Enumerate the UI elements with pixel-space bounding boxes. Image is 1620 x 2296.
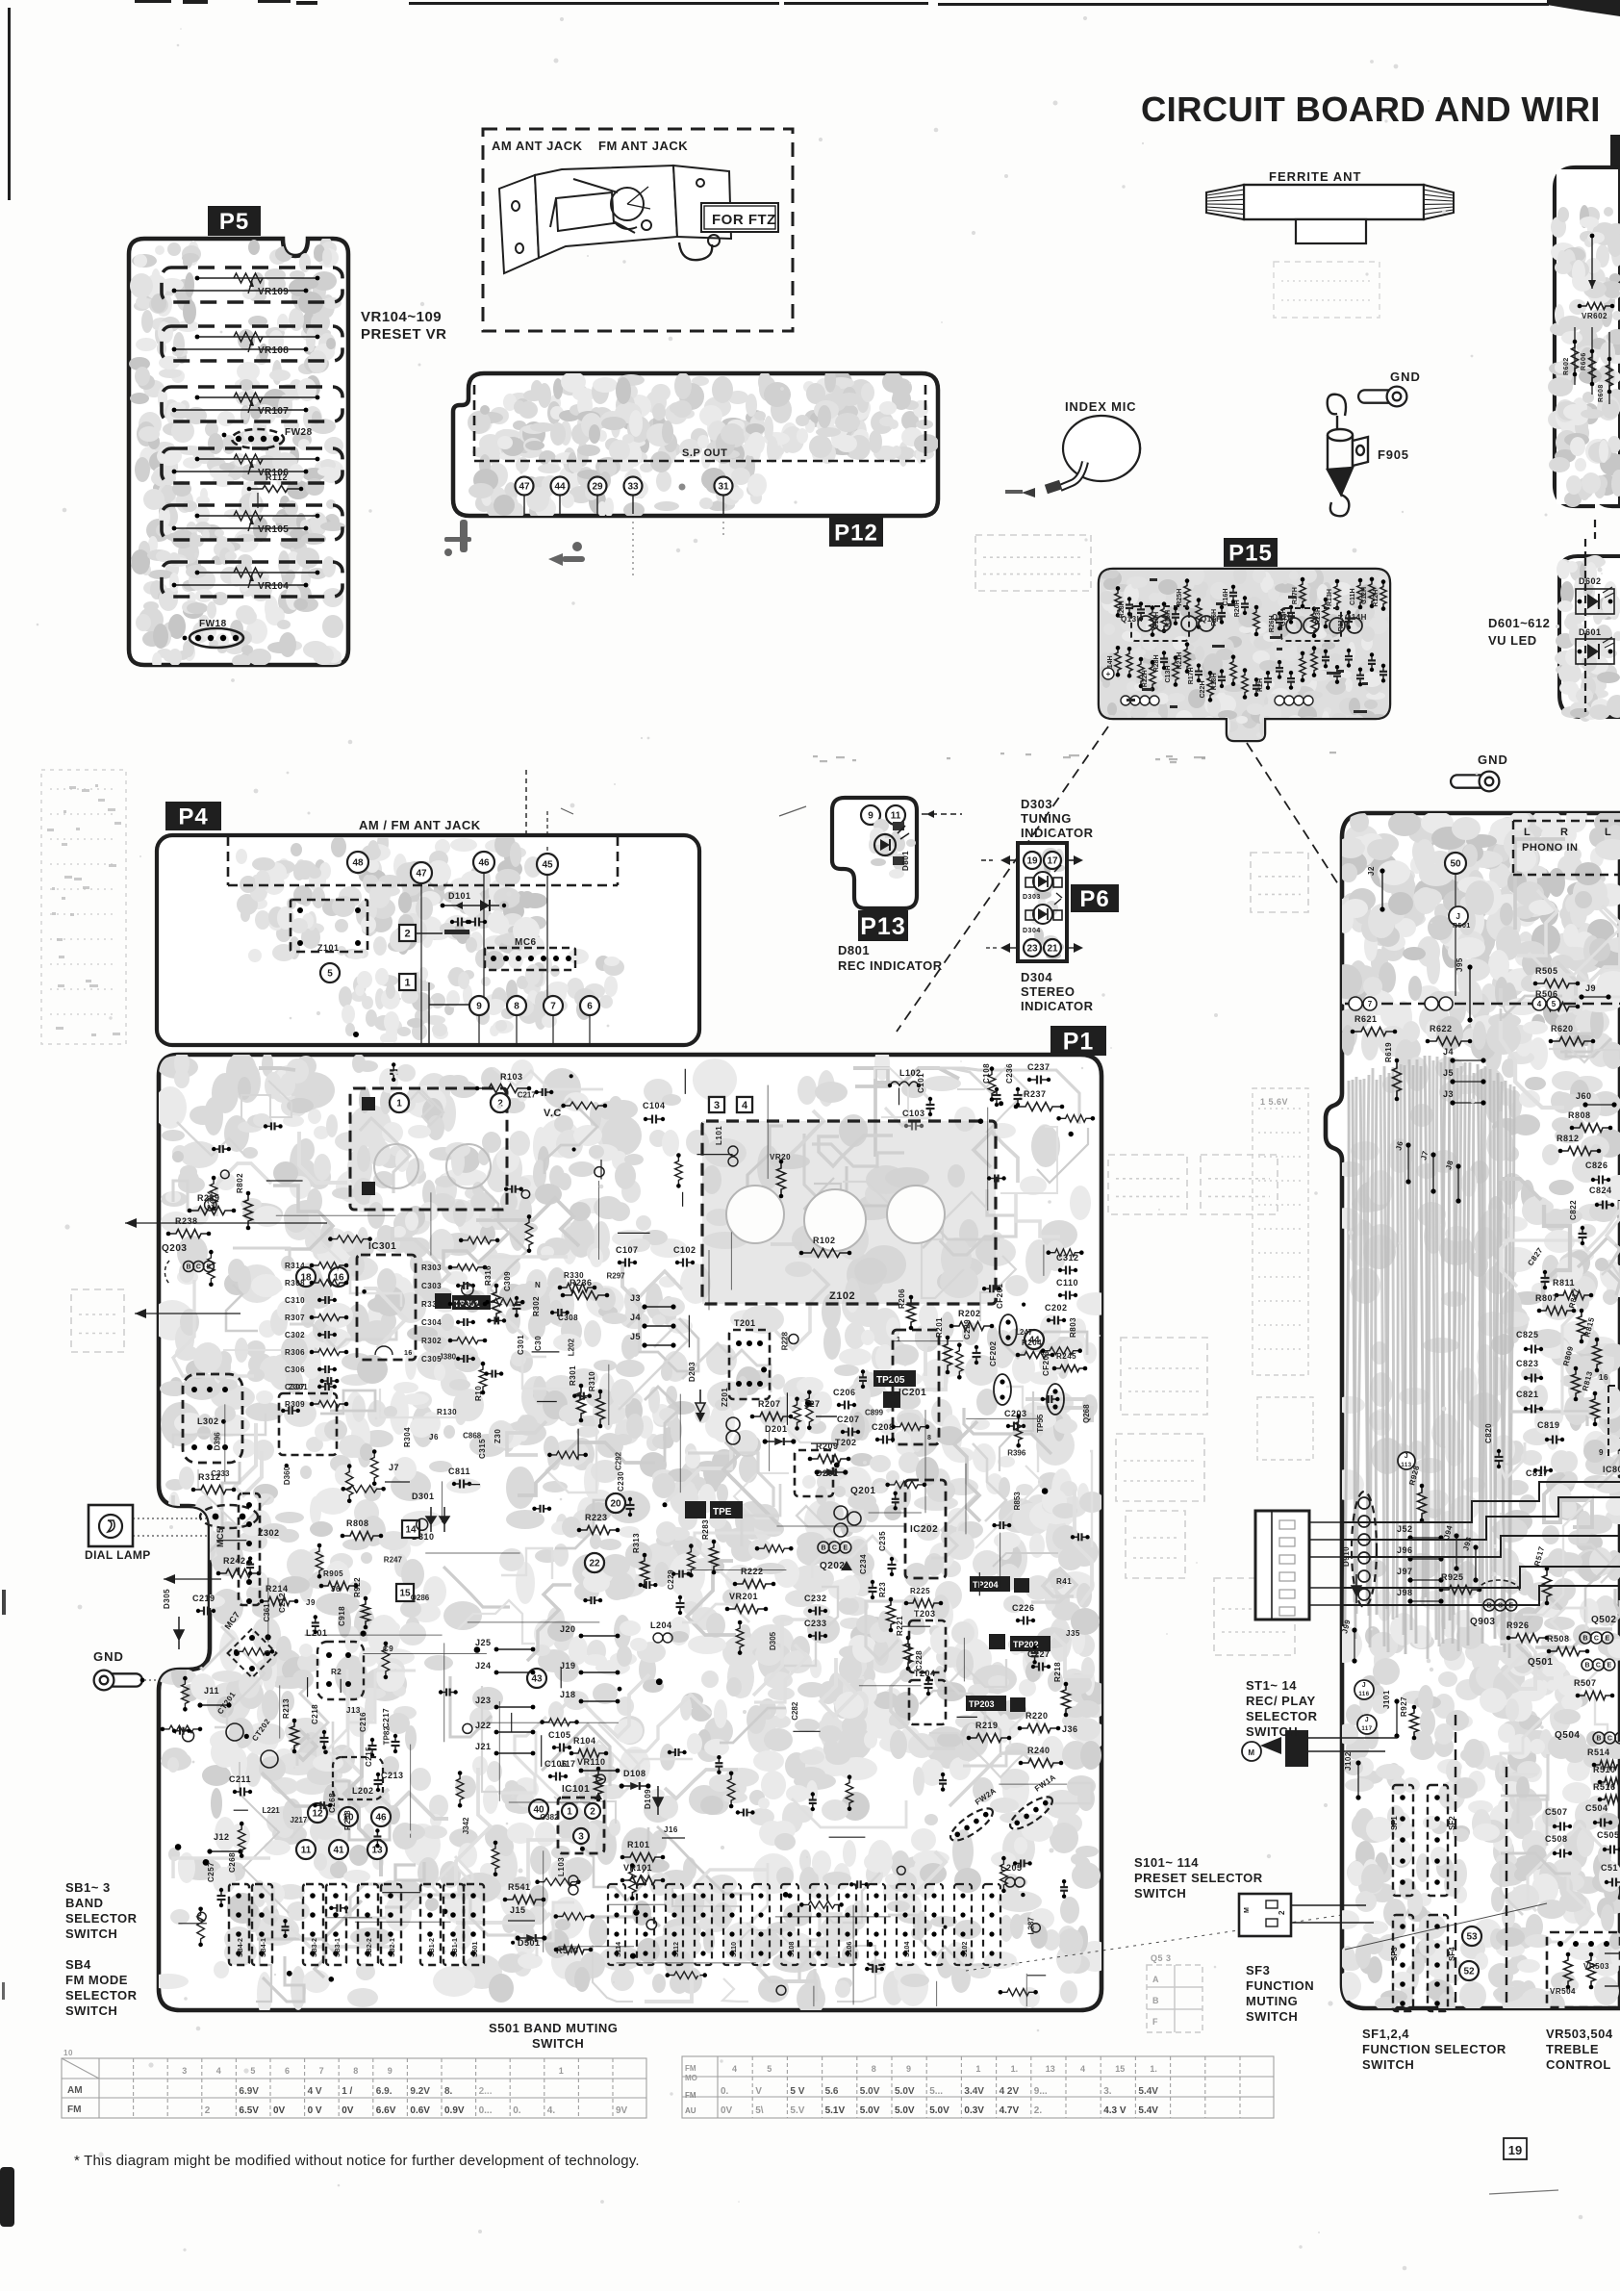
board P4 outline xyxy=(157,835,699,1045)
resistor R508 Q501 xyxy=(1528,1634,1615,1700)
svg-text:R23: R23 xyxy=(878,1582,887,1597)
transistor Q203 xyxy=(162,1243,214,1284)
coil L201 xyxy=(306,1628,364,1699)
svg-text:J9: J9 xyxy=(306,1598,316,1607)
svg-text:C102: C102 xyxy=(673,1245,696,1255)
coil L102 xyxy=(888,1068,922,1087)
svg-text:S112: S112 xyxy=(673,1942,680,1957)
svg-text:R330: R330 xyxy=(421,1300,442,1309)
svg-text:R302: R302 xyxy=(421,1337,442,1345)
svg-text:R304: R304 xyxy=(403,1427,412,1447)
svg-text:C811: C811 xyxy=(448,1467,470,1476)
ground lug (middle) xyxy=(1451,753,1508,791)
IC201 dashed xyxy=(893,1330,939,1444)
caps row above band switches C214 C208 xyxy=(331,1645,393,1676)
svg-text:R103: R103 xyxy=(500,1072,523,1082)
svg-text:S110: S110 xyxy=(731,1942,738,1957)
pcb component scatter P1 xyxy=(161,1062,1096,1996)
note D801 REC INDICATOR xyxy=(838,943,943,973)
svg-text:C22H: C22H xyxy=(1200,680,1206,698)
svg-text:R245: R245 xyxy=(1056,1352,1076,1361)
svg-text:R803: R803 xyxy=(1069,1317,1077,1338)
svg-text:R306: R306 xyxy=(285,1348,305,1357)
svg-text:IC202: IC202 xyxy=(910,1524,938,1535)
svg-text:14: 14 xyxy=(405,1525,417,1536)
svg-text:L205: L205 xyxy=(1000,1863,1023,1873)
svg-text:R606: R606 xyxy=(1581,352,1587,370)
svg-text:TP82: TP82 xyxy=(383,1726,392,1746)
svg-text:J380: J380 xyxy=(439,1353,456,1362)
svg-text:R238: R238 xyxy=(175,1216,198,1226)
svg-text:SB4: SB4 xyxy=(65,1957,91,1972)
note D303 TUNING INDICATOR xyxy=(1021,797,1094,840)
svg-text:Q268: Q268 xyxy=(1082,1404,1091,1423)
svg-text:Z101: Z101 xyxy=(317,943,340,953)
preset selector switches S101~S114 xyxy=(608,1884,1000,1965)
resistor R112 xyxy=(247,472,304,508)
svg-text:R247: R247 xyxy=(384,1555,403,1564)
svg-text:C333: C333 xyxy=(211,1469,230,1478)
jumper FW28 xyxy=(222,427,313,448)
svg-text:P6: P6 xyxy=(1079,886,1109,912)
svg-text:Q11H: Q11H xyxy=(1201,615,1222,624)
label box FOR FTZ xyxy=(701,203,778,232)
svg-text:VR101: VR101 xyxy=(623,1863,652,1873)
svg-text:SB3-2: SB3-2 xyxy=(312,1938,318,1957)
svg-text:C228: C228 xyxy=(915,1650,924,1671)
svg-text:R214: R214 xyxy=(266,1584,289,1594)
svg-text:Q286: Q286 xyxy=(411,1594,430,1602)
svg-text:TP204: TP204 xyxy=(973,1580,999,1590)
svg-text:R905: R905 xyxy=(323,1569,343,1578)
jumpers J52 J96 J97 J98 xyxy=(1397,1524,1444,1604)
test point TP301 xyxy=(435,1293,491,1310)
resistor R223 R313 R283 R222 VR201 xyxy=(577,1513,776,1643)
IC202 dashed xyxy=(905,1480,946,1578)
pin 46 xyxy=(473,852,494,873)
svg-text:R808: R808 xyxy=(346,1518,369,1528)
pin 21 xyxy=(1044,939,1061,957)
svg-text:FM MODE: FM MODE xyxy=(65,1973,128,1987)
pin 7 (P4) xyxy=(544,996,563,1015)
parts near S501: R541 J15 D501 R540 L103 C257 C268 xyxy=(207,1852,593,1955)
svg-text:P13: P13 xyxy=(860,913,905,940)
pins 20 22 xyxy=(606,1493,625,1513)
svg-text:J35: J35 xyxy=(1066,1629,1080,1638)
svg-text:1: 1 xyxy=(567,1807,572,1818)
note ST1~14 REC/PLAY SELECTOR SWITCH xyxy=(1246,1678,1318,1739)
svg-text:J21: J21 xyxy=(475,1742,492,1751)
svg-text:D601: D601 xyxy=(1579,627,1602,637)
svg-text:C108: C108 xyxy=(982,1063,991,1084)
svg-text:R102: R102 xyxy=(813,1236,836,1245)
svg-text:J4: J4 xyxy=(630,1313,641,1322)
svg-text:VU LED: VU LED xyxy=(1488,633,1537,648)
svg-text:R802: R802 xyxy=(236,1173,244,1193)
svg-text:R313: R313 xyxy=(632,1533,641,1553)
svg-text:IC101: IC101 xyxy=(562,1784,590,1795)
svg-text:T204: T204 xyxy=(914,1669,936,1678)
svg-text:D201: D201 xyxy=(765,1424,788,1434)
svg-text:B: B xyxy=(186,1264,190,1271)
svg-text:N: N xyxy=(535,1281,541,1289)
board fragment (top right) xyxy=(1555,167,1620,506)
jumpers J3 J4 J5 xyxy=(630,1293,676,1348)
svg-text:S101~ 114: S101~ 114 xyxy=(1134,1855,1199,1870)
pins 53 52 xyxy=(1462,1926,1481,1946)
svg-text:9: 9 xyxy=(476,1002,482,1012)
pin 1 (P1, redraw) xyxy=(390,1093,409,1112)
svg-text:C202: C202 xyxy=(1045,1303,1068,1313)
ghost box Q5 xyxy=(1147,1965,1202,2032)
transistor Q502 xyxy=(1580,1615,1616,1644)
trimmer VR201 top xyxy=(770,1153,791,1198)
svg-text:R2: R2 xyxy=(331,1668,342,1676)
svg-text:L287: L287 xyxy=(1026,1917,1035,1935)
svg-text:J19: J19 xyxy=(560,1661,576,1671)
connector MC6 xyxy=(485,937,575,970)
pin 44 (P12) xyxy=(551,477,570,515)
dashed pointer line from P15 to P1 xyxy=(897,727,1108,1032)
pin 2 (P1, redraw) xyxy=(491,1093,510,1112)
svg-text:AM ANT JACK: AM ANT JACK xyxy=(492,139,583,153)
svg-text:SB4-1: SB4-1 xyxy=(261,1938,267,1957)
svg-text:16: 16 xyxy=(404,1350,413,1357)
svg-text:R201: R201 xyxy=(935,1317,944,1338)
svg-text:Q12H: Q12H xyxy=(1272,613,1294,622)
svg-text:J5: J5 xyxy=(630,1332,641,1341)
svg-text:R330: R330 xyxy=(564,1271,584,1280)
page number 19 xyxy=(1504,2138,1527,2159)
note D304 STEREO INDICATOR xyxy=(1021,970,1094,1013)
svg-text:R28H: R28H xyxy=(1153,654,1160,672)
capacitor C108 C236 xyxy=(982,1063,1023,1107)
svg-text:IC201: IC201 xyxy=(899,1388,926,1398)
svg-text:SB1-2: SB1-2 xyxy=(429,1938,436,1957)
svg-text:D304: D304 xyxy=(1021,970,1052,984)
thin pointer line across P2 xyxy=(1345,1903,1547,1950)
svg-text:J23: J23 xyxy=(475,1696,492,1705)
coil L205 xyxy=(1000,1863,1025,1887)
parts under IC101: R101 VR101 D109 D108 R104 C105 C106 VR110 xyxy=(544,1730,685,1885)
svg-text:J3: J3 xyxy=(630,1293,641,1303)
pin 2 (P1) xyxy=(491,1093,510,1112)
svg-text:R225: R225 xyxy=(910,1587,930,1595)
svg-text:Q14H: Q14H xyxy=(1345,613,1367,622)
svg-text:D303: D303 xyxy=(1021,797,1052,811)
svg-text:FERRITE ANT: FERRITE ANT xyxy=(1269,169,1361,184)
svg-text:D801: D801 xyxy=(838,943,870,957)
rec/play switch connector ST1~14 xyxy=(1255,1511,1342,1620)
svg-text:D602: D602 xyxy=(1579,576,1602,586)
svg-text:R308: R308 xyxy=(285,1279,305,1288)
svg-text:R112: R112 xyxy=(266,472,288,482)
board P6 outline xyxy=(1018,843,1067,961)
svg-text:R297: R297 xyxy=(607,1272,626,1281)
board label P1 xyxy=(1050,1026,1106,1056)
svg-text:Z301: Z301 xyxy=(289,1383,308,1391)
terminal 3 xyxy=(709,1097,724,1112)
svg-text:R307: R307 xyxy=(285,1314,305,1322)
scan artifact: left edge line xyxy=(0,8,14,2227)
treble control VR503 VR504 dashed box xyxy=(1547,1932,1620,2007)
pin 11 (P13) xyxy=(886,805,905,825)
svg-text:L202: L202 xyxy=(567,1339,575,1357)
circled J113 xyxy=(1398,1452,1415,1469)
svg-text:Z201: Z201 xyxy=(721,1388,729,1407)
svg-text:8: 8 xyxy=(927,1435,931,1441)
svg-text:C216: C216 xyxy=(359,1712,367,1732)
pcb traces P5 xyxy=(129,237,345,670)
svg-text:15: 15 xyxy=(399,1589,411,1599)
svg-text:R853: R853 xyxy=(1013,1492,1022,1511)
wires in P4 xyxy=(356,808,573,1045)
wires/resistors VR602 R602 R606 R608 xyxy=(1563,234,1614,404)
resistor R619 xyxy=(1384,1042,1402,1101)
svg-text:41: 41 xyxy=(333,1846,344,1856)
pin 5 xyxy=(320,963,340,982)
svg-text:MC6: MC6 xyxy=(515,937,537,948)
svg-text:SB3-1: SB3-1 xyxy=(335,1938,342,1957)
svg-text:BAND: BAND xyxy=(65,1896,104,1910)
terminal 4 xyxy=(737,1097,752,1112)
pin 48 xyxy=(347,852,368,873)
pin 45 xyxy=(537,854,558,875)
svg-text:R237: R237 xyxy=(1024,1089,1047,1099)
index mic xyxy=(1005,399,1140,497)
svg-text:SB1~ 3: SB1~ 3 xyxy=(65,1880,111,1895)
svg-text:C104: C104 xyxy=(643,1101,666,1110)
svg-text:SWITCH: SWITCH xyxy=(65,2003,117,2018)
svg-text:D301: D301 xyxy=(412,1492,435,1501)
svg-text:FW28: FW28 xyxy=(285,427,313,438)
function switch SF3 (board) xyxy=(1390,1915,1413,2011)
svg-text:29: 29 xyxy=(592,482,603,493)
resistor R236 xyxy=(561,1278,610,1300)
band selector switches SB4/SB3/SB2/SB1 S501 xyxy=(229,1884,484,1965)
board label P5 xyxy=(208,206,261,236)
note S501 BAND MUTING SWITCH xyxy=(489,2021,618,2051)
svg-text:J22: J22 xyxy=(475,1721,492,1730)
preset pot VR106 xyxy=(162,448,342,483)
svg-text:1: 1 xyxy=(404,978,410,989)
LED D801 xyxy=(869,819,916,879)
function muting switch SF3 connector xyxy=(1239,1894,1374,1936)
svg-text:SB4-2: SB4-2 xyxy=(238,1938,244,1957)
svg-text:C233: C233 xyxy=(804,1619,827,1628)
pin 31 (P12) xyxy=(715,477,733,515)
svg-text:CIRCUIT BOARD AND WIRI: CIRCUIT BOARD AND WIRI xyxy=(1141,89,1601,129)
dashed cutout below fragment xyxy=(1594,520,1596,539)
dashed section dividers (P2 bottom) xyxy=(1455,1715,1456,2008)
resistors R621 R622 R620 xyxy=(1351,1014,1596,1046)
svg-text:R20H: R20H xyxy=(1234,600,1241,617)
ghost marks below ferrite xyxy=(1274,262,1380,318)
svg-text:R309: R309 xyxy=(285,1400,305,1409)
svg-text:L204: L204 xyxy=(650,1620,672,1630)
jumper J2 xyxy=(1367,866,1385,912)
svg-text:TP55: TP55 xyxy=(1036,1414,1045,1433)
svg-text:S104: S104 xyxy=(904,1942,911,1957)
ferrite antenna xyxy=(1206,169,1454,243)
jumper J95 xyxy=(1455,957,1473,1022)
board label P6 xyxy=(1071,884,1119,912)
svg-text:R206: R206 xyxy=(898,1288,906,1309)
board label P13 xyxy=(858,910,908,941)
resistors R202 R201 R206 cluster xyxy=(898,1288,994,1374)
svg-text:T201: T201 xyxy=(734,1318,756,1328)
svg-text:J18: J18 xyxy=(560,1690,576,1699)
IC101 dashed xyxy=(558,1784,604,1853)
resistor R925 R517 xyxy=(1439,1545,1552,1606)
svg-text:C310: C310 xyxy=(285,1296,305,1305)
fuse clip F905 xyxy=(1328,395,1368,517)
cluster around C213 C268 R258 xyxy=(328,1771,404,1830)
svg-text:C103: C103 xyxy=(902,1109,925,1118)
svg-text:48: 48 xyxy=(352,858,364,869)
svg-text:SB1-1: SB1-1 xyxy=(452,1938,459,1957)
svg-text:GND: GND xyxy=(1478,753,1508,767)
svg-text:T203: T203 xyxy=(914,1609,936,1619)
svg-text:C227: C227 xyxy=(1027,1649,1050,1659)
svg-text:R228: R228 xyxy=(781,1332,790,1351)
jumper J9 xyxy=(1579,983,1610,1000)
caps CT201 CT202 R213 C211 C216 C217 C215 L202 xyxy=(215,1690,399,1799)
svg-text:IC301: IC301 xyxy=(368,1241,396,1252)
jumpers FW2A FW1A xyxy=(947,1773,1058,1846)
svg-text:C868: C868 xyxy=(463,1431,482,1440)
svg-text:Z102: Z102 xyxy=(829,1290,855,1302)
svg-text:D601~612: D601~612 xyxy=(1488,616,1550,630)
svg-text:R213: R213 xyxy=(282,1698,291,1719)
pin 50 xyxy=(1445,853,1466,874)
jumpers J94 J93 vertical xyxy=(1442,1524,1478,1583)
capacitor C237 xyxy=(1027,1062,1050,1084)
svg-text:C217: C217 xyxy=(382,1708,391,1728)
svg-text:J17: J17 xyxy=(560,1759,576,1769)
svg-text:R204: R204 xyxy=(1022,1339,1042,1347)
test point TP205 xyxy=(873,1370,916,1408)
svg-text:46: 46 xyxy=(375,1813,387,1824)
svg-text:R2H: R2H xyxy=(1257,678,1264,692)
svg-text:D108: D108 xyxy=(623,1769,646,1778)
svg-text:CF202: CF202 xyxy=(989,1340,998,1366)
svg-text:C16H: C16H xyxy=(1223,589,1229,606)
board label P12 xyxy=(829,518,883,547)
svg-text:C226: C226 xyxy=(1012,1603,1035,1613)
svg-text:STEREO: STEREO xyxy=(1021,984,1075,999)
svg-text:TP203: TP203 xyxy=(969,1699,995,1709)
svg-text:44: 44 xyxy=(554,482,566,493)
board P5 outline xyxy=(129,239,348,665)
dashed outline inside P12 (S.P OUT) xyxy=(473,385,476,461)
voltage table (right) xyxy=(682,2056,1274,2118)
svg-text:R316: R316 xyxy=(484,1265,493,1286)
svg-text:J16: J16 xyxy=(664,1825,678,1834)
pin 18 / 16 xyxy=(296,1267,316,1287)
svg-text:L103: L103 xyxy=(557,1857,566,1876)
pin 29 (P12) xyxy=(589,477,607,515)
svg-text:S501 BAND MUTING: S501 BAND MUTING xyxy=(489,2021,618,2035)
capacitor C101 C103 xyxy=(902,1073,935,1131)
svg-text:C: C xyxy=(832,1545,837,1552)
note SF3 FUNCTION MUTING SWITCH xyxy=(1246,1963,1314,2024)
preset pot VR108 xyxy=(162,326,342,361)
svg-text:17: 17 xyxy=(1047,856,1058,867)
svg-text:INDICATOR: INDICATOR xyxy=(1021,999,1094,1013)
connectors CF201 CF202 CF203 xyxy=(989,1283,1064,1415)
svg-text:C235: C235 xyxy=(878,1531,887,1551)
ground lug (top) xyxy=(1358,370,1421,406)
svg-text:C292: C292 xyxy=(615,1451,623,1470)
jumpers J101 R927 vertical xyxy=(1340,1619,1418,1800)
svg-text:12: 12 xyxy=(312,1809,323,1820)
board: VU LED strip xyxy=(1559,556,1620,717)
ghost voltage strip (left of P2) xyxy=(1253,1088,1313,1460)
resistors R505 R506 xyxy=(1533,966,1581,1011)
svg-text:C208: C208 xyxy=(872,1422,895,1432)
pcb traces P1 xyxy=(148,1046,1115,2016)
svg-text:SB2-1: SB2-1 xyxy=(390,1938,396,1957)
dashed arrow right of P13 xyxy=(922,810,962,818)
svg-text:AM / FM ANT JACK: AM / FM ANT JACK xyxy=(359,818,481,832)
svg-text:GND: GND xyxy=(1390,370,1421,384)
svg-text:VR107: VR107 xyxy=(258,406,289,417)
svg-text:PRESET SELECTOR: PRESET SELECTOR xyxy=(1134,1871,1263,1885)
transformer T203 xyxy=(909,1609,946,1672)
svg-text:C207: C207 xyxy=(837,1415,860,1424)
note SB4 FM MODE SELECTOR SWITCH xyxy=(65,1957,138,2018)
caps C230 C232 C233 C234 C235 xyxy=(617,1471,897,1641)
middle cluster: R207 J27 C206 C207 C208 D201 D202 R209 Z201 xyxy=(721,1388,895,1464)
resistor R103 xyxy=(475,1072,532,1093)
svg-text:C206: C206 xyxy=(833,1388,856,1397)
capacitors near D101 xyxy=(444,918,487,935)
svg-text:J7: J7 xyxy=(389,1463,399,1472)
resistor R926 xyxy=(1506,1620,1550,1643)
svg-text:VR104~109: VR104~109 xyxy=(361,309,442,325)
pin 9 (P4) xyxy=(469,996,489,1015)
svg-text:S501: S501 xyxy=(472,1942,479,1957)
svg-text:MC5: MC5 xyxy=(215,1527,225,1547)
svg-text:J6: J6 xyxy=(429,1433,439,1441)
svg-text:C218: C218 xyxy=(311,1704,319,1724)
dial lamp leads xyxy=(133,1518,210,1519)
dashed region (ant jack) in P4 xyxy=(227,836,230,885)
resistor R102 xyxy=(799,1236,852,1258)
svg-text:R101: R101 xyxy=(627,1840,650,1850)
ground lug (left) xyxy=(93,1649,159,1690)
svg-text:R218: R218 xyxy=(1053,1662,1062,1682)
transformer T201 xyxy=(729,1318,770,1399)
svg-text:C268: C268 xyxy=(228,1852,237,1873)
svg-text:J20: J20 xyxy=(560,1624,576,1634)
svg-text:C306: C306 xyxy=(285,1365,305,1374)
svg-text:R303: R303 xyxy=(421,1263,442,1272)
svg-text:L101: L101 xyxy=(715,1126,723,1145)
pin 20 (redraw) xyxy=(606,1493,625,1513)
connector MC7 xyxy=(222,1610,276,1678)
LED D303 xyxy=(1023,865,1062,901)
svg-text:P12: P12 xyxy=(834,521,878,547)
preset pot VR105 xyxy=(162,505,342,540)
pcb traces top-right fragment xyxy=(1548,205,1620,507)
svg-text:J217: J217 xyxy=(291,1816,308,1824)
svg-text:R18H: R18H xyxy=(1211,673,1218,690)
svg-text:FOR FTZ: FOR FTZ xyxy=(712,212,776,228)
function switch SF4 xyxy=(1428,1915,1456,2011)
svg-text:11: 11 xyxy=(301,1846,312,1856)
